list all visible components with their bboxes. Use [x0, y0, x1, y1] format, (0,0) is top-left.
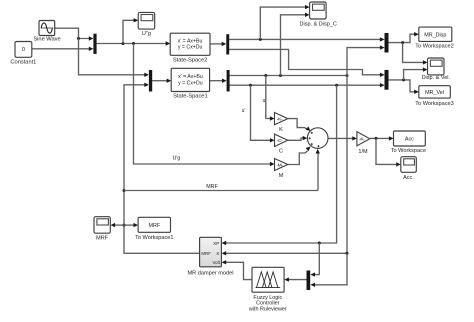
node demux1-out1 junction — [259, 38, 262, 41]
svg-text:y = Cx+Du: y = Cx+Du — [178, 45, 203, 51]
wire XP branch to mux5 input 1 — [310, 243, 319, 277]
sink MR_Disp To Workspace2 — [415, 27, 453, 49]
wire sine-wave to mux1 input 1 — [55, 28, 94, 41]
svg-text:MR_Disp: MR_Disp — [424, 32, 446, 38]
wire gain K to sum — [288, 119, 311, 131]
wire MRF to workspace1 block — [124, 223, 138, 227]
wire constant1 to mux1 input 2 — [32, 47, 94, 51]
scope MRF — [94, 217, 110, 242]
node vel junction to gain C — [249, 84, 252, 87]
wire XP column down to MR damper port XP — [222, 85, 337, 245]
wire branch up to scope Disp&Disp_C input 1 — [260, 5, 309, 40]
svg-text:K: K — [279, 127, 283, 133]
svg-text:MRF: MRF — [148, 223, 160, 229]
svg-text:U'g: U'g — [173, 156, 181, 162]
scope Disp. & Vel. — [422, 58, 451, 81]
wire X column down to MR damper port X — [222, 76, 347, 256]
wire branch to scope Disp&Vel input 1 — [403, 43, 428, 65]
node disp junction X column — [346, 74, 349, 77]
wire disp down to gain K — [266, 76, 275, 121]
svg-text:with Ruleviewer: with Ruleviewer — [248, 306, 287, 312]
svg-text:To Workspace1: To Workspace1 — [135, 235, 173, 241]
svg-text:1/M: 1/M — [358, 149, 368, 155]
sink MR_Vel To Workspace3 — [415, 86, 453, 107]
svg-text:u': u' — [242, 108, 246, 114]
gain C — [275, 134, 288, 155]
gain M — [275, 159, 288, 180]
svg-text:Volt: Volt — [212, 260, 220, 265]
block MR damper model — [187, 237, 233, 276]
mux M2 — [149, 70, 152, 92]
wire demux2 out2 velocity to mux4 input 2 — [230, 83, 385, 87]
mux M3 — [385, 33, 389, 53]
svg-text:State-Space1: State-Space1 — [173, 94, 207, 100]
node vel junction XP column — [335, 84, 338, 87]
wire acc branch to scope Acc. — [376, 138, 401, 166]
svg-text:Constant1: Constant1 — [10, 59, 36, 65]
source Sine Wave — [33, 21, 60, 43]
svg-text:u: u — [263, 98, 266, 104]
gain 1/M — [357, 132, 370, 155]
svg-text:-K-: -K- — [277, 116, 283, 122]
svg-text:State-Space2: State-Space2 — [173, 57, 207, 63]
wire state-space2 to demux1 — [210, 42, 226, 46]
wire MRF long line to sum — [124, 190, 318, 192]
wire mux5 to fuzzy controller — [284, 277, 306, 281]
svg-text:-C-: -C- — [277, 138, 283, 144]
wire X column up to mux3 input 2 — [347, 45, 385, 75]
node mux4-out junction — [402, 78, 405, 81]
wire mux1 to state-space2 — [97, 41, 171, 45]
wire X branch to mux5 input 2 — [310, 253, 347, 287]
wire mux4 to MR_Vel — [389, 80, 419, 94]
node XP junction to mux5 — [318, 242, 321, 245]
block State-Space2 — [170, 33, 210, 63]
mux M4 — [385, 70, 389, 90]
block State-Space1 — [171, 68, 209, 99]
svg-text:C: C — [279, 149, 283, 155]
wire demux1 out1 to mux3 input 1 — [229, 37, 384, 41]
demux D1 — [226, 34, 229, 54]
wire fuzzy controller to MR damper Volt — [222, 260, 252, 280]
svg-text:To Workspace: To Workspace — [391, 148, 426, 154]
wire branch to scope Disp&Vel input 2 — [404, 67, 428, 80]
node disp junction to scope — [279, 74, 282, 77]
svg-text:MRF: MRF — [96, 236, 109, 242]
wire demux2 out1 displacement — [230, 75, 347, 77]
node MRF junction long line — [123, 189, 126, 192]
svg-text:y = Cx+Du: y = Cx+Du — [178, 80, 203, 86]
svg-text:U''g: U''g — [142, 31, 151, 37]
svg-text:To Workspace2: To Workspace2 — [415, 44, 453, 50]
scope U''g — [138, 12, 155, 37]
svg-text:-K-: -K- — [359, 137, 365, 143]
svg-text:Disp. & Vel.: Disp. & Vel. — [422, 75, 451, 81]
svg-text:Acc: Acc — [405, 137, 414, 143]
label u' — [242, 108, 246, 114]
svg-text:Sine Wave: Sine Wave — [33, 36, 60, 42]
mux M5 — [307, 271, 311, 291]
node X junction to mux5 — [346, 252, 349, 255]
wire mux2 to state-space1 — [152, 79, 171, 83]
svg-text:MR_Vel: MR_Vel — [425, 90, 444, 96]
label MRF wire — [206, 184, 218, 190]
scope Acc. — [401, 157, 417, 181]
node mux1-out junction B — [132, 42, 135, 45]
wire disp up to scope Disp&Disp_C input 2 — [281, 13, 310, 76]
wire MR damper MRF output to mux2 input 2 — [124, 83, 200, 254]
svg-text:Disp. & Disp_C: Disp. & Disp_C — [300, 21, 337, 27]
wire MRF to scope MRF — [111, 223, 125, 227]
wire U'g branch down to gain M — [134, 44, 275, 167]
svg-text:MRF: MRF — [201, 251, 211, 256]
label u — [263, 98, 266, 104]
sum junction S1 — [307, 128, 328, 149]
node disp junction to gain K — [264, 74, 267, 77]
svg-text:XP: XP — [213, 241, 219, 246]
svg-text:Acc.: Acc. — [403, 175, 414, 181]
wire sine branch to mux2 input 1 — [79, 39, 149, 78]
node MRF junction scope row — [123, 224, 126, 227]
demux D2 — [227, 70, 230, 92]
wire MRF up into sum bottom — [316, 149, 320, 191]
wire gain M to sum — [288, 147, 311, 165]
node sine branch junction — [77, 37, 80, 40]
mux M1 — [93, 34, 96, 54]
node mux3-out junction — [401, 41, 404, 44]
wire sum to gain 1/M — [328, 136, 357, 140]
node mux1-out junction A — [122, 42, 125, 45]
svg-text:-M-: -M- — [276, 162, 283, 168]
svg-text:MR damper model: MR damper model — [187, 271, 233, 277]
sink Acc To Workspace — [391, 131, 426, 154]
wire mux3 to MR_Disp — [389, 32, 419, 43]
gain K — [275, 113, 288, 134]
source Constant1 — [10, 42, 36, 66]
svg-text:x' = Ax+Bu: x' = Ax+Bu — [178, 74, 203, 80]
svg-text:X: X — [216, 251, 219, 256]
label U'g wire — [173, 156, 181, 162]
node acc junction — [375, 137, 378, 140]
wire vel down to gain C — [251, 85, 275, 142]
wire state-space1 to demux2 — [210, 79, 227, 83]
wire branch up to scope U''g — [123, 18, 138, 43]
svg-text:To Workspace3: To Workspace3 — [415, 101, 453, 107]
svg-text:M: M — [279, 173, 284, 179]
svg-text:0: 0 — [22, 47, 25, 53]
block Fuzzy Logic Controller with Ruleviewer — [248, 267, 287, 312]
wire gain 1/M to Acc workspace — [370, 136, 394, 140]
wire gain C to sum — [288, 136, 308, 140]
sink MRF To Workspace1 — [135, 217, 173, 241]
scope Disp. & Disp_C — [300, 2, 337, 27]
svg-text:MRF: MRF — [206, 184, 218, 190]
wire demux1 out2 to mux4 input 1 — [229, 49, 384, 77]
svg-text:x' = Ax+Bu: x' = Ax+Bu — [178, 38, 203, 44]
